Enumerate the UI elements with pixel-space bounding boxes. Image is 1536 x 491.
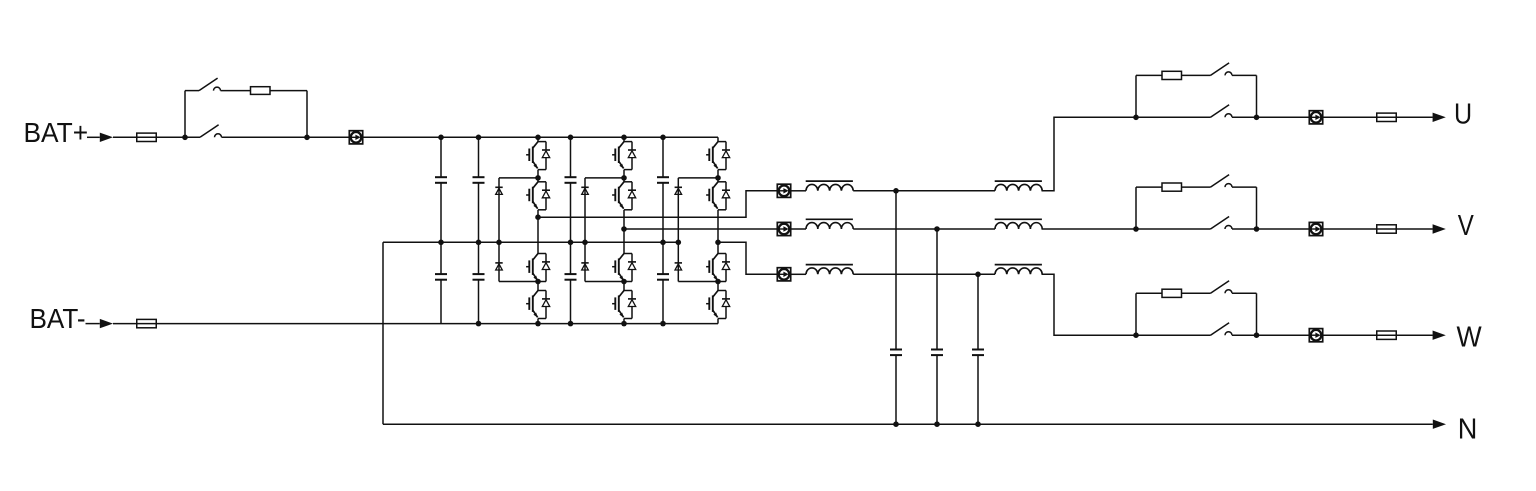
svg-text:V: V: [1458, 209, 1474, 242]
svg-text:U: U: [1454, 97, 1472, 130]
svg-text:W: W: [1457, 320, 1483, 352]
svg-text:BAT+: BAT+: [24, 116, 89, 148]
svg-text:BAT-: BAT-: [30, 302, 86, 334]
svg-text:N: N: [1458, 413, 1478, 445]
